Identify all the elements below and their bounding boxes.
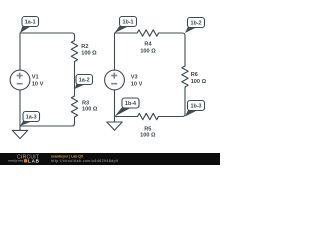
wire: right loop bottom-left segment — [115, 116, 138, 118]
watermark logo CIRCUIT LAB — [8, 155, 40, 164]
svg-text:1a-3: 1a-3 — [26, 115, 37, 121]
svg-text:LAB: LAB — [28, 159, 40, 164]
svg-text:1b-2: 1b-2 — [190, 21, 201, 27]
svg-text:http://circuitlab.com/c6462948: http://circuitlab.com/c6462948dp9 — [51, 159, 118, 163]
voltage source V1 — [10, 70, 30, 90]
node 1b-4 — [115, 98, 140, 117]
svg-text:V1: V1 — [32, 74, 39, 80]
wire: right loop left rail lower — [114, 90, 116, 117]
wire: left loop left rail upper — [19, 33, 21, 70]
node 1b-1 — [115, 17, 137, 34]
svg-text:1a-1: 1a-1 — [25, 20, 36, 26]
svg-text:10 V: 10 V — [32, 82, 44, 88]
svg-text:1b-1: 1b-1 — [122, 20, 133, 26]
wire: left loop bottom segment — [20, 117, 75, 126]
svg-text:R2: R2 — [81, 44, 88, 50]
R4 value label — [140, 41, 156, 54]
V3 value label — [131, 74, 143, 87]
R5 value label — [140, 126, 156, 138]
svg-text:R4: R4 — [144, 41, 152, 47]
svg-text:100 Ω: 100 Ω — [81, 50, 97, 56]
wire: right loop right rail lower — [159, 87, 186, 117]
svg-text:R3: R3 — [82, 100, 89, 106]
svg-text:100 Ω: 100 Ω — [140, 48, 156, 54]
svg-text:1b-4: 1b-4 — [125, 101, 136, 107]
svg-text:10 V: 10 V — [131, 82, 143, 88]
svg-text:100 Ω: 100 Ω — [140, 132, 156, 138]
node 1a-3 — [20, 112, 40, 127]
svg-text:R6: R6 — [191, 72, 198, 78]
wire: right loop left rail upper — [114, 33, 116, 70]
node 1a-1 — [20, 17, 39, 34]
V3 polarity marks — [111, 73, 117, 84]
node 1a-2 — [75, 75, 93, 90]
node 1b-2 — [185, 18, 205, 34]
R2 value label — [81, 44, 97, 56]
R3 value label — [82, 100, 98, 112]
svg-text:100 Ω: 100 Ω — [191, 79, 207, 85]
wire: right loop top-left segment — [115, 32, 138, 34]
voltage source V3 — [105, 70, 125, 90]
svg-text:seanbeyer | Lab Q5: seanbeyer | Lab Q5 — [51, 154, 83, 158]
V1 polarity marks — [17, 73, 23, 84]
resistor R2 — [71, 41, 77, 62]
wire: left loop top segment — [20, 33, 75, 41]
svg-text:1b-3: 1b-3 — [190, 104, 201, 110]
ground symbol (left circuit) — [12, 126, 27, 139]
svg-text:100 Ω: 100 Ω — [82, 107, 98, 113]
R6 value label — [191, 72, 207, 85]
watermark bar — [0, 153, 220, 165]
svg-text:V3: V3 — [131, 74, 138, 80]
V1 value label — [32, 74, 44, 87]
resistor R5 — [138, 113, 159, 119]
resistor R6 — [182, 66, 188, 87]
wire: left loop left rail lower — [19, 90, 21, 126]
resistor R3 — [71, 96, 77, 117]
ground symbol (right circuit) — [107, 117, 122, 131]
resistor R4 — [137, 30, 158, 36]
svg-text:1a-2: 1a-2 — [79, 78, 90, 84]
node 1b-3 — [185, 101, 205, 117]
wire: right loop top-right segment — [159, 33, 185, 66]
wire: segment between R2 and R3 (node 1a-2) — [74, 62, 76, 97]
